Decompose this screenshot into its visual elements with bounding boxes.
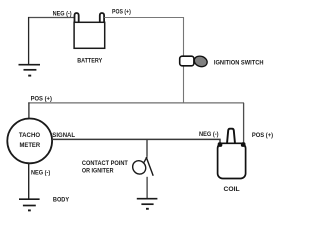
svg-text:OR IGNITER: OR IGNITER: [82, 168, 114, 174]
label CONTACT POINT / OR IGNITER: [82, 161, 128, 175]
svg-text:NEG (-): NEG (-): [199, 132, 219, 138]
svg-text:TACHO: TACHO: [19, 133, 41, 139]
svg-text:BATTERY: BATTERY: [77, 58, 102, 64]
svg-text:NEG (-): NEG (-): [31, 171, 50, 177]
ignition switch: [180, 55, 209, 69]
contact point (breaker): [130, 156, 153, 176]
coil: [218, 129, 246, 179]
ground G2 (body): [19, 199, 40, 210]
wire: left vertical down to chassis ground: [28, 17, 30, 64]
wire: battery POS to top-right corner: [104, 17, 184, 19]
tachometer: [7, 118, 52, 163]
svg-text:SIGNAL: SIGNAL: [52, 133, 75, 139]
svg-text:NEG (-): NEG (-): [53, 12, 72, 18]
svg-text:COIL: COIL: [224, 187, 241, 193]
wire: rail down to coil POS: [243, 103, 245, 144]
svg-text:POS (+): POS (+): [112, 10, 131, 16]
wire: right vertical through ignition switch: [183, 17, 185, 103]
svg-text:METER: METER: [20, 143, 41, 149]
ground G3 (contact point): [137, 199, 158, 209]
svg-text:POS (+): POS (+): [31, 96, 52, 102]
wire: junction drop to contact point: [146, 139, 148, 156]
wire: top-left from battery NEG to corner: [28, 17, 74, 19]
label TACHO METER: [19, 133, 41, 149]
svg-text:CONTACT POINT: CONTACT POINT: [82, 161, 128, 167]
svg-text:IGNITION SWITCH: IGNITION SWITCH: [214, 60, 264, 66]
svg-text:POS (+): POS (+): [252, 133, 273, 139]
battery: [74, 13, 105, 48]
ground G1 (battery negative ground): [19, 65, 41, 76]
wire: SIGNAL from tachometer to coil NEG: [52, 139, 220, 143]
wire: contact point to ground: [146, 177, 148, 198]
wire: rail down to tachometer top: [28, 102, 30, 118]
wire: tachometer NEG down to body ground: [28, 163, 30, 198]
svg-text:BODY: BODY: [53, 197, 69, 203]
wire: middle POS distribution rail: [28, 102, 244, 104]
